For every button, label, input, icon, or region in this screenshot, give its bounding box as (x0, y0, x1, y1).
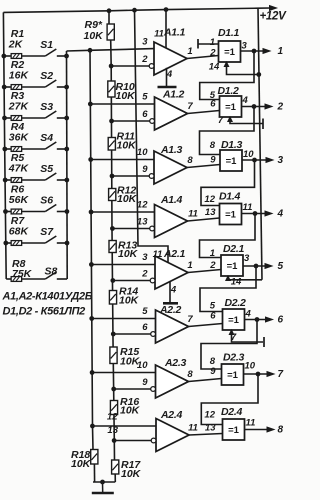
XOR gate D1.2 (220, 96, 242, 117)
svg-text:8: 8 (278, 424, 284, 435)
resistor R16 body (110, 401, 117, 415)
resistor R1 row wire from +12V bus (4, 55, 11, 57)
wire switch common bus (66, 51, 69, 279)
svg-text:10K: 10K (117, 139, 138, 151)
svg-text:=1: =1 (228, 425, 240, 436)
wire loop D1.1 output to D1.2 upper input (200, 51, 254, 100)
svg-text:4: 4 (166, 69, 173, 80)
switch S2 contact stub (57, 86, 67, 88)
wire A2.4 output to D2.4 input (189, 434, 223, 436)
svg-text:6: 6 (278, 314, 284, 325)
resistor R9* body (107, 24, 114, 40)
junction switch bus / S1 (65, 54, 69, 58)
wire D2.2 output (245, 319, 266, 321)
svg-text:A1.1: A1.1 (163, 27, 185, 39)
resistor R11 body (108, 138, 115, 151)
svg-text:A2.3: A2.3 (164, 357, 186, 369)
switch S5 contact stub (57, 179, 67, 181)
junction node / input bus (88, 48, 92, 52)
junction ladder / A2.3 - input (112, 387, 116, 391)
svg-text:A2.2: A2.2 (159, 304, 181, 316)
svg-text:10K: 10K (118, 248, 139, 260)
wire D1.2 pin 7 to common tick (230, 117, 263, 124)
svg-text:1: 1 (210, 37, 215, 48)
wire node bus to A1.3 + input (91, 159, 154, 161)
output arrowhead 8 (267, 427, 274, 432)
svg-text:10K: 10K (116, 90, 137, 102)
svg-text:7: 7 (231, 332, 237, 343)
junction ground rail / ground stem (101, 480, 105, 484)
power mark D2.1 pin 14 (226, 276, 230, 281)
resistor R12 body (109, 189, 116, 201)
wire R8 to switch S8 (22, 278, 46, 280)
wire ladder tap to A2.4 - input (114, 440, 151, 442)
wire node bus to A2.3 + input (92, 372, 155, 374)
junction ladder / A2.1 - input (111, 279, 115, 283)
junction switch bus / S4 (65, 147, 69, 151)
wire D2.1 pin 14 to +12V rail end (228, 276, 262, 280)
junction bus / A1.3 + input (89, 158, 93, 162)
resistor R15 body (110, 347, 117, 364)
switch S4 contact stub (57, 148, 67, 150)
svg-text:9: 9 (142, 377, 148, 388)
svg-text:10K: 10K (119, 295, 140, 307)
inversion bubble A1.1 (149, 64, 154, 69)
svg-text:14: 14 (231, 277, 242, 288)
wire chain R9 bottom to R17 (111, 40, 115, 460)
svg-text:A2.4: A2.4 (160, 409, 182, 421)
wire loop D1.3 output to D1.4 upper input (201, 160, 255, 206)
wire ladder tap to A1.2 - input (112, 120, 150, 122)
wire ladder tap to A2.2 - input (113, 333, 151, 335)
wire A1.1 pin 4 to ground (166, 68, 168, 87)
junction D1.2 output node (252, 105, 256, 109)
wire node bus to A2.1 + input (91, 264, 155, 266)
svg-text:S5: S5 (40, 163, 53, 175)
wire node bus to A1.4 + input (91, 211, 154, 213)
svg-text:12: 12 (204, 194, 215, 205)
wire D2.4 output (245, 429, 268, 431)
resistor R4 body (11, 147, 22, 152)
svg-text:1: 1 (187, 260, 192, 271)
junction ladder / A2.2 - input (111, 332, 115, 336)
resistor R17 body (112, 460, 119, 474)
junction bus / A2.4 + input (91, 424, 95, 428)
svg-text:1: 1 (278, 46, 284, 57)
svg-text:11: 11 (188, 209, 198, 220)
wire +12V top rail (3, 8, 258, 12)
svg-text:D1.4: D1.4 (219, 191, 240, 203)
svg-text:S7: S7 (40, 226, 54, 238)
wire node bus to A1.2 + input (90, 103, 154, 105)
svg-text:9: 9 (210, 366, 216, 377)
junction top wire / A1 pin 11 (164, 8, 168, 12)
wire D2.2 pin 7 to common tick (232, 330, 264, 342)
wire A1.1 output to D1.1 input (187, 56, 219, 59)
inversion bubble A1.2 (150, 119, 155, 124)
wire A2 supply from +12V top to A2.1 pin 11 (135, 10, 169, 262)
svg-text:68K: 68K (9, 226, 30, 238)
junction top wire / A2 supply line (133, 8, 137, 12)
svg-text:+12V: +12V (260, 11, 288, 23)
svg-text:8: 8 (210, 140, 216, 151)
junction switch bus / S7 (65, 241, 69, 245)
resistor R5 row wire from +12V bus (5, 179, 11, 181)
switch S7 blade (45, 236, 56, 243)
resistor R3 body (11, 116, 22, 121)
svg-text:10: 10 (243, 149, 254, 160)
XOR gate D2.3 (222, 364, 244, 385)
resistor R4 row wire from +12V bus (5, 148, 11, 150)
resistor R2 body (11, 85, 22, 90)
wire R2 to switch S2 (22, 86, 46, 88)
wire R1 to switch S1 (22, 55, 46, 57)
junction switch bus / S2 (65, 85, 69, 89)
XOR gate D1.1 (219, 41, 241, 62)
wire D1.1 pin 14 to +12V rail (227, 62, 259, 75)
svg-text:2: 2 (141, 269, 148, 280)
svg-text:10: 10 (245, 361, 256, 372)
svg-text:D2.2: D2.2 (225, 297, 246, 309)
resistor R10 body (108, 81, 115, 97)
svg-text:56K: 56K (9, 194, 30, 206)
svg-text:D1.3: D1.3 (221, 139, 242, 151)
svg-text:S4: S4 (40, 132, 53, 144)
svg-text:S3: S3 (40, 101, 53, 113)
junction left bus / R1 (2, 54, 6, 58)
svg-text:D1.1: D1.1 (218, 27, 239, 39)
switch S3 blade (45, 111, 56, 118)
svg-text:36K: 36K (9, 132, 30, 144)
wire left +12V bus (feeds R1-R8) (3, 12, 6, 279)
junction top wire / R9 (107, 9, 111, 13)
wire A1 pin 11 supply from +12V top (165, 10, 167, 49)
svg-text:4: 4 (277, 208, 284, 219)
junction left bus / R6 (4, 210, 8, 214)
svg-text:10K: 10K (121, 468, 142, 480)
junction ladder / A1.4 - input (111, 227, 115, 231)
svg-text:A1.4: A1.4 (160, 194, 182, 206)
op-amp A2.1 (155, 256, 188, 289)
switch S7 contact stub (57, 242, 67, 244)
svg-text:2: 2 (209, 260, 216, 271)
wire D2.1 output (243, 265, 265, 267)
svg-text:6: 6 (142, 109, 148, 120)
svg-text:4: 4 (242, 95, 249, 106)
svg-text:1: 1 (210, 248, 215, 259)
op-amp A2.4 (156, 419, 189, 452)
wire A2.3 output to D2.3 input (189, 379, 222, 382)
XOR gate D2.1 (221, 255, 243, 276)
wire R3 to switch S3 (22, 117, 46, 119)
svg-text:3: 3 (142, 37, 148, 48)
wire R5 to switch S5 (22, 179, 46, 181)
svg-text:5: 5 (142, 306, 148, 317)
svg-text:3: 3 (142, 252, 148, 263)
switch S4 blade (45, 142, 56, 149)
tick terminator D1.1 pin 1 (197, 39, 199, 49)
svg-text:10K: 10K (71, 458, 92, 470)
svg-text:5: 5 (142, 92, 148, 103)
switch S1 blade (45, 49, 56, 56)
XOR gate D1.3 (220, 150, 242, 171)
wire R7 to switch S7 (22, 242, 46, 244)
junction bus / A2.2 + input (90, 317, 94, 321)
junction left bus / R3 (3, 116, 7, 120)
power +12V arrow (258, 7, 270, 9)
junction ladder / A1.3 - input (110, 174, 114, 178)
power mark D2.2 pin 7 (229, 330, 233, 335)
svg-text:S8: S8 (45, 266, 58, 278)
svg-text:7: 7 (187, 314, 193, 325)
junction D1.4 output node (253, 212, 257, 216)
junction D2.1 output node (254, 264, 258, 268)
svg-text:12: 12 (204, 410, 215, 421)
wire D1.2 output (242, 106, 266, 108)
resistor R8 row wire from +12V bus (6, 278, 11, 280)
wire D1.3 output (242, 159, 266, 161)
junction bus / A1.4 + input (89, 210, 93, 214)
output arrowhead 4 (265, 211, 272, 216)
svg-text:6: 6 (142, 322, 148, 333)
inversion bubble A1.4 (150, 226, 155, 231)
resistor R2 row wire from +12V bus (4, 86, 11, 88)
svg-text:12: 12 (107, 412, 118, 423)
junction D2.2 output node (255, 318, 259, 322)
wire loop D2.2 output to D2.3 upper input (201, 320, 257, 370)
svg-text:13: 13 (205, 207, 216, 218)
svg-text:10K: 10K (117, 193, 138, 205)
resistor R3 row wire from +12V bus (5, 117, 12, 119)
svg-text:12: 12 (137, 200, 148, 211)
svg-text:10: 10 (137, 360, 148, 371)
wire A1.3 output to D1.3 input (187, 165, 220, 168)
svg-text:=1: =1 (225, 210, 237, 221)
wire node bus to A2.2 + input (92, 318, 156, 320)
svg-text:9: 9 (142, 164, 148, 175)
junction switch bus / S3 (65, 116, 69, 120)
wire node row: switch bus to A1.1 pin 3 (67, 49, 155, 51)
svg-text:3: 3 (244, 253, 250, 264)
wire A1.4 output to D1.4 input (188, 218, 220, 221)
switch S8 blade (45, 272, 56, 279)
wire ladder tap to A1.1 - input (111, 65, 149, 67)
svg-text:А1,А2-К1401УД2Б: А1,А2-К1401УД2Б (2, 291, 93, 303)
inversion bubble A2.2 (151, 332, 156, 337)
wire loop D1.2 output to D1.3 upper input (200, 107, 255, 155)
switch S2 blade (45, 80, 56, 87)
switch S6 contact stub (57, 211, 67, 213)
svg-text:5: 5 (278, 261, 284, 272)
svg-text:13: 13 (137, 217, 148, 228)
wire +12V vertical rail (right) (258, 8, 262, 280)
output arrowhead 7 (267, 372, 274, 377)
junction left bus / R5 (3, 178, 7, 182)
junction switch bus / S5 (65, 178, 69, 182)
junction left bus / R2 (2, 85, 6, 89)
junction left bus / R7 (4, 241, 8, 245)
svg-text:3: 3 (242, 41, 248, 52)
resistor R1 body (11, 54, 22, 59)
svg-text:13: 13 (107, 425, 118, 436)
svg-text:2: 2 (277, 101, 284, 112)
svg-text:8: 8 (187, 155, 193, 166)
svg-text:27K: 27K (8, 101, 30, 113)
svg-text:11: 11 (243, 202, 253, 213)
op-amp A1.4 (155, 205, 188, 238)
resistor R14 body (109, 291, 116, 305)
svg-text:A1.2: A1.2 (162, 89, 184, 101)
svg-text:16K: 16K (9, 70, 30, 82)
junction D1.1 output node (252, 49, 256, 53)
resistor R6 row wire from +12V bus (5, 211, 11, 213)
output arrowhead 5 (265, 264, 272, 269)
junction D2.3 output node (256, 372, 260, 376)
svg-text:7: 7 (187, 101, 193, 112)
svg-text:7: 7 (218, 115, 224, 126)
junction ladder / A2.4 - input (112, 439, 116, 443)
junction D1.3 output node (253, 158, 257, 162)
resistor R18 body (91, 450, 98, 465)
svg-text:7: 7 (278, 369, 284, 380)
ground symbol bottom (102, 482, 104, 492)
op-amp A1.1 (154, 42, 187, 75)
op-amp A2.3 (156, 365, 189, 398)
wire loop D2.3 output to D2.4 upper input (201, 374, 258, 425)
tick terminator D1.2 pin 7 (262, 119, 264, 130)
junction ladder / A1.2 - input (110, 119, 114, 123)
svg-text:10K: 10K (84, 30, 105, 42)
svg-text:D2.4: D2.4 (221, 406, 242, 418)
svg-text:A1.3: A1.3 (160, 144, 182, 156)
wire loop D2.1 output to D2.2 upper input (200, 266, 256, 312)
ground symbol A1 (158, 86, 177, 89)
wire D2.3 output (244, 373, 268, 375)
resistor R13 body (109, 241, 116, 253)
svg-text:47K: 47K (8, 163, 30, 175)
junction left bus / R4 (3, 147, 7, 151)
svg-text:6: 6 (210, 311, 216, 322)
op-amp A1.3 (154, 151, 187, 184)
inversion bubble A2.1 (150, 278, 155, 283)
output arrowhead 1 (263, 49, 270, 54)
svg-text:10K: 10K (120, 405, 141, 417)
svg-text:S1: S1 (40, 39, 53, 51)
switch S5 blade (45, 173, 56, 180)
wire ladder tap to A2.3 - input (114, 388, 151, 390)
svg-text:10: 10 (137, 147, 148, 158)
switch S6 blade (45, 205, 56, 212)
op-amp A2.2 (156, 310, 189, 343)
wire A1.2 output to D1.2 input (188, 111, 220, 114)
svg-text:11: 11 (188, 423, 198, 434)
svg-text:13: 13 (205, 423, 216, 434)
XOR gate D2.4 (223, 419, 245, 440)
svg-text:=1: =1 (228, 315, 240, 326)
XOR gate D1.4 (220, 204, 242, 225)
op-amp A1.2 (155, 97, 188, 130)
resistor R7 row wire from +12V bus (6, 242, 11, 244)
XOR gate D2.2 (223, 309, 245, 330)
svg-text:=1: =1 (226, 156, 238, 167)
wire ladder tap to A1.4 - input (112, 228, 149, 230)
wire R6 to switch S6 (22, 211, 46, 213)
svg-text:2K: 2K (8, 39, 24, 51)
wire D1.4 output (242, 213, 266, 215)
resistor R6 body (11, 209, 22, 214)
svg-text:2: 2 (141, 54, 148, 65)
junction pin14 wire / rail (257, 73, 261, 77)
junction bus / A2.1 + input (89, 263, 93, 267)
svg-text:=1: =1 (227, 261, 239, 272)
wire reference ladder chain (108, 11, 110, 24)
switch S1 contact stub (57, 55, 67, 57)
switch S3 contact stub (57, 117, 67, 119)
svg-text:D1,D2 - К561ЛП2: D1,D2 - К561ЛП2 (3, 306, 86, 318)
svg-text:14: 14 (209, 62, 220, 73)
svg-text:D2.3: D2.3 (223, 352, 244, 364)
svg-text:=1: =1 (224, 47, 236, 58)
output arrowhead 6 (266, 317, 273, 322)
svg-text:1: 1 (187, 46, 192, 57)
svg-text:11: 11 (246, 418, 256, 429)
inversion bubble A1.3 (149, 174, 154, 179)
junction bus / A2.3 + input (90, 371, 94, 375)
svg-text:A2.1: A2.1 (163, 248, 185, 260)
resistor R5 body (11, 178, 22, 183)
output arrowhead 2 (265, 104, 272, 109)
inversion bubble A2.3 (151, 387, 156, 392)
wire R4 to switch S4 (22, 148, 46, 150)
svg-text:6: 6 (210, 99, 216, 110)
svg-text:11: 11 (154, 29, 164, 40)
tick terminator D2.2 pin 7 (263, 337, 265, 347)
wire D1.1 pin 1 stub to common (198, 43, 219, 45)
wire loop D1.4 output to D2.1 upper input (200, 214, 256, 258)
svg-text:4: 4 (245, 309, 252, 320)
power mark D1.1 pin 14 (224, 62, 228, 67)
wire D1.1 output (241, 50, 264, 52)
wire ladder tap to A2.1 - input (113, 280, 151, 282)
svg-text:=1: =1 (227, 370, 239, 381)
wire A2.2 output to D2.2 input (189, 324, 223, 327)
wire R18 bottom to ground rail (93, 464, 95, 482)
wire A2.1 output to D2.1 input (188, 270, 221, 273)
svg-text:D2.1: D2.1 (223, 243, 244, 255)
wire input-voltage bus (to + inputs, down to R18) (90, 50, 93, 449)
wire A2.1 pin 4 to ground (169, 282, 171, 303)
output arrowhead 3 (266, 158, 273, 163)
svg-text:=1: =1 (225, 102, 237, 113)
junction switch bus / S6 (65, 210, 69, 214)
svg-text:4: 4 (170, 285, 177, 296)
power mark D1.2 pin 7 (228, 117, 232, 122)
svg-text:S6: S6 (40, 195, 53, 207)
svg-text:D1.2: D1.2 (218, 85, 239, 97)
svg-text:2: 2 (209, 48, 216, 59)
svg-text:3: 3 (278, 155, 284, 166)
junction ladder / A1.1 - input (109, 64, 113, 68)
wire ladder tap to A1.3 - input (112, 175, 149, 177)
switch S8 contact stub (57, 278, 67, 280)
wire R17 bottom to ground rail (114, 474, 116, 482)
svg-text:9: 9 (210, 155, 216, 166)
wire node bus to A2.4 + input (92, 425, 156, 427)
inversion bubble A2.4 (151, 438, 156, 443)
svg-text:8: 8 (187, 369, 193, 380)
junction bus / A1.2 + input (88, 102, 92, 106)
svg-text:S2: S2 (40, 70, 53, 82)
